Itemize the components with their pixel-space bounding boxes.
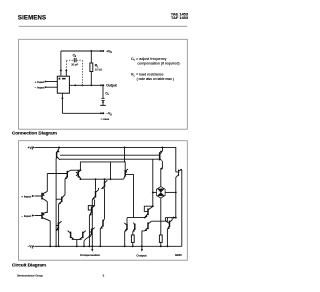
transistor Q13: [88, 206, 94, 216]
transistor Q8: [124, 169, 128, 179]
wire Q13 emitter down: [88, 216, 90, 247]
arrow into right column: [173, 217, 176, 219]
wire Q10 emitter down: [49, 221, 51, 246]
wire hex top feed: [161, 169, 163, 187]
transistor Qb: [144, 221, 151, 231]
wire bias vertical B: [58, 204, 60, 246]
terminal +Vs: [100, 49, 112, 54]
wire Tx feed: [126, 218, 128, 224]
wire Q7 emitter down / comp line: [91, 200, 93, 247]
transistor Qa: [145, 206, 153, 217]
wire bias vertical A: [55, 158, 57, 246]
transistor Q10 (-input): [35, 212, 51, 221]
transistor Q14: [100, 219, 104, 229]
transistor Q3 (+input): [35, 191, 48, 201]
wire Q4 base tie: [56, 198, 62, 200]
transistor Qout top driver: [160, 151, 163, 161]
svg-text:Connection Diagram: Connection Diagram: [12, 130, 57, 135]
wire Q3 collector up: [46, 174, 48, 192]
resistor RL body: [90, 63, 93, 72]
terminal +Input: [34, 80, 47, 84]
wire RL leads: [90, 51, 92, 63]
note RL text: [131, 73, 174, 81]
connection diagram figure box: [19, 39, 188, 129]
svg-text:SIEMENS: SIEMENS: [18, 15, 46, 22]
wire Qb emitter elbow: [142, 230, 145, 233]
wire Q7 feed: [95, 179, 97, 190]
op-amp U1 pin marks: [59, 78, 66, 80]
svg-text:Circuit Diagram: Circuit Diagram: [12, 262, 46, 267]
wire Qc collector riser: [171, 218, 173, 220]
transistor Q2: [65, 170, 71, 179]
circuit diagram figure box: [19, 141, 188, 261]
wire small q base link: [176, 171, 179, 173]
wire output: [69, 84, 102, 86]
wire T2 collector link: [70, 169, 80, 171]
wire Qb collector H: [151, 218, 167, 222]
wire output net: [141, 232, 143, 247]
wire pin8 lead: [65, 70, 67, 76]
svg-text:Semiconductor Group: Semiconductor Group: [17, 274, 43, 278]
terminal +Vs circuit: [28, 146, 36, 151]
svg-text:= case: = case: [101, 118, 110, 121]
terminal Output: [100, 84, 117, 88]
wire Q5 emitter drop: [79, 178, 81, 179]
wire Qc emitter down: [166, 229, 168, 246]
wire bus line 2: [60, 158, 160, 160]
wire Q3 emitter / Q10 collector: [46, 202, 48, 213]
transistor Q6: [101, 180, 107, 189]
wire -Vs bottom rail to GND corner: [35, 245, 182, 247]
capacitor Ck plates: [74, 58, 76, 62]
resistor R1 output: [131, 235, 134, 242]
svg-text:– Input: – Input: [35, 86, 45, 90]
terminal +Input: [21, 194, 35, 198]
transistor Q5: [76, 170, 81, 178]
capacitor Ck dashed option box: [66, 60, 82, 85]
svg-text:TAF 1453: TAF 1453: [171, 15, 189, 20]
diode pair hexagon: [157, 187, 166, 199]
svg-text:30 pF: 30 pF: [71, 63, 78, 67]
junction dots connection diagram: [60, 50, 92, 99]
transistor Ty output right: [133, 223, 136, 232]
wire right column mid: [175, 177, 177, 217]
wire hex bottom to R2: [160, 198, 162, 235]
wire Qout collector down: [161, 161, 163, 168]
svg-text:( note also on table max ): ( note also on table max ): [137, 77, 174, 81]
svg-text:GND: GND: [175, 253, 183, 257]
wire CL lead: [102, 85, 104, 98]
svg-text:+ Input: + Input: [34, 80, 44, 84]
transistor Q12a mirror pair left: [68, 231, 75, 240]
transistor Qc: [165, 218, 172, 230]
wire hex row left: [153, 191, 157, 193]
wire Q6 feed: [104, 179, 106, 181]
wire Q13 collector stub: [94, 200, 96, 206]
ground symbol: [100, 104, 106, 106]
wire Ty emitter to R1: [132, 232, 134, 235]
wire +Vs top rail: [35, 147, 176, 172]
wire Q2 emitter chain: [64, 179, 66, 195]
wire R2 bottom: [160, 242, 162, 246]
wire pair emitters down: [74, 240, 79, 247]
svg-text:Output: Output: [136, 253, 146, 257]
svg-text:+ Input: + Input: [21, 194, 31, 198]
transistor Q11: [56, 221, 62, 231]
wire R1 bottom: [132, 242, 134, 246]
wire Q15 emitter hook: [84, 237, 88, 246]
wire mid horizontal y162: [80, 162, 125, 170]
wire GND vertical: [181, 170, 183, 246]
terminal Compensation: [80, 246, 100, 257]
wire Q14 emitter down: [99, 229, 101, 247]
wire -input: [46, 86, 57, 88]
terminal -Input: [21, 214, 34, 218]
wire input base bus y173.5: [47, 173, 67, 175]
header rule: [19, 25, 188, 27]
wire Q8 collector vertical: [124, 147, 126, 162]
transistor Q1: [56, 148, 60, 160]
wire hex row right: [165, 191, 176, 193]
transistor Tx output left: [124, 223, 127, 232]
svg-text:10 kΩ: 10 kΩ: [95, 68, 102, 72]
wire Qa collector line: [152, 159, 154, 206]
transistor q small right: [176, 169, 182, 177]
transistor Q7: [92, 188, 98, 200]
transistor Q4: [59, 195, 66, 205]
wire +input: [46, 81, 57, 83]
note Ck text: [131, 57, 180, 66]
wire bus line 1: [60, 154, 160, 156]
wire Qout emitter to rail: [161, 147, 163, 151]
wire Q6-Q14 column: [104, 188, 106, 218]
wire output stage H y217.6 right: [165, 217, 175, 219]
terminal -Input: [35, 86, 48, 90]
wire pin4 lead: [61, 93, 63, 113]
wire +Vs top: [61, 50, 103, 52]
wire -Vs rail: [62, 112, 102, 114]
svg-text:– Input: – Input: [21, 214, 31, 218]
wire emitter row y179: [80, 178, 123, 180]
svg-text:Compensation: Compensation: [80, 253, 100, 257]
transistor Q12b mirror pair right: [79, 231, 86, 240]
wire pin7 lead: [60, 51, 62, 76]
wire output stage H y217.6 left: [127, 217, 145, 219]
svg-text:3: 3: [103, 274, 105, 278]
terminal Output circuit: [136, 246, 146, 257]
terminal -Vs: [100, 112, 112, 122]
capacitor CL: [101, 98, 104, 100]
svg-text:compensation (if required): compensation (if required): [137, 61, 179, 65]
wire mid drop at 110.5: [110, 162, 112, 179]
wire Qa loop: [144, 206, 153, 211]
wire Q8 base loop: [126, 175, 134, 218]
terminal -Vs circuit: [28, 245, 36, 250]
svg-text:Output: Output: [106, 84, 117, 88]
wire Tx emitter: [124, 231, 126, 246]
op-amp U1 package outline: [57, 76, 69, 93]
resistor R2: [159, 235, 162, 242]
junction dots circuit diagram: [49, 146, 177, 247]
transistor Q15: [88, 228, 94, 238]
